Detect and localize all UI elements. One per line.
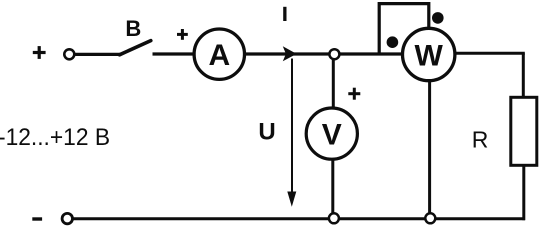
bottom node 2 (wattmeter junction, open circle)	[425, 213, 435, 223]
wire (right vertical down to resistor)	[522, 53, 525, 98]
wire (wattmeter down to bottom node 2)	[428, 81, 431, 214]
wattmeter current-coil loop wire	[379, 4, 429, 54]
ammeter A	[194, 29, 244, 79]
wire (ammeter to node A, with current arrow)	[245, 52, 330, 55]
svg-text:V: V	[322, 118, 342, 151]
plus terminal label	[33, 46, 46, 59]
node A (junction, open circle on top rail)	[329, 49, 339, 59]
svg-text:А: А	[208, 39, 230, 72]
wire (node A to wattmeter)	[340, 52, 404, 55]
wire (resistor down to bottom right corner)	[522, 165, 525, 220]
resistor R	[511, 97, 537, 165]
wire (wattmeter to right corner)	[455, 52, 525, 55]
svg-text:-12...+12 В: -12...+12 В	[0, 124, 110, 151]
terminal node (bottom left, open circle)	[62, 213, 72, 223]
wire (bottom rail)	[74, 217, 526, 220]
switch B blade	[120, 41, 151, 55]
wattmeter polarity dot (top right)	[432, 12, 444, 24]
wire (node A down to voltmeter)	[332, 59, 335, 109]
wattmeter W	[403, 28, 455, 80]
svg-text:U: U	[258, 119, 275, 146]
voltmeter V	[306, 108, 357, 159]
wattmeter polarity dot (left)	[387, 36, 399, 48]
wire (switch to ammeter)	[153, 52, 195, 55]
svg-text:R: R	[472, 126, 489, 152]
svg-text:W: W	[415, 39, 444, 72]
current direction arrow I	[283, 46, 297, 61]
svg-text:В: В	[125, 16, 141, 41]
bottom node 1 (voltmeter junction, open circle)	[329, 213, 339, 223]
terminal node (top left, open circle)	[64, 49, 74, 59]
plus polarity mark of ammeter	[177, 29, 188, 40]
minus terminal label	[32, 217, 42, 220]
label I	[283, 7, 286, 21]
voltage arrow U (vertical, pointing down)	[287, 59, 296, 207]
plus polarity mark of voltmeter	[348, 88, 360, 100]
wire (top-left terminal to switch pivot)	[75, 53, 121, 56]
wire (voltmeter down to bottom node 1)	[331, 159, 334, 213]
